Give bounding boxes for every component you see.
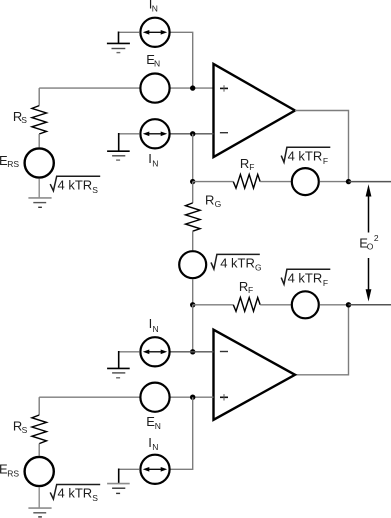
wire [260,304,291,306]
ground [107,469,140,494]
wire [170,351,213,353]
label IN (inverting, bottom) [149,316,159,334]
label RS (top) [13,109,27,125]
label EN (bottom) [146,414,161,431]
voltage source √4 kTRG [179,251,206,278]
svg-text:R: R [240,156,249,171]
value √4 kTRS (top) [50,176,100,195]
svg-text:4 kTR: 4 kTR [58,177,93,192]
ground [107,351,140,378]
node (inverting input junction) [190,131,195,136]
current source IN (inverting input, bottom) [140,337,169,366]
value √4 kTRS (bottom) [50,485,100,504]
resistor RS (top) [32,88,47,147]
label IN (inverting, top) [148,151,158,168]
voltage source ERS (top) [25,148,54,177]
svg-text:F: F [248,285,253,295]
wire [39,87,140,89]
node (noninverting input junction) [190,85,195,90]
node (noninverting input junction, bottom) [190,395,195,400]
svg-text:N: N [155,421,161,431]
label RF (bottom) [239,279,253,295]
node (top output) [346,179,351,184]
svg-text:2: 2 [374,233,379,243]
wire [39,396,140,398]
label IN (top) [149,0,158,14]
label ERS (top) [0,153,19,169]
node (bottom output) [346,302,351,307]
wire [193,181,234,183]
wire [320,304,349,306]
svg-text:S: S [92,493,98,503]
ground [28,487,51,517]
value √4 kTRF (top) [281,147,330,166]
resistor RS (bottom) [32,397,47,456]
node (bottom feedback node) [190,302,195,307]
svg-text:N: N [152,158,158,168]
node (inverting input junction, bottom) [190,349,195,354]
svg-text:4 kTR: 4 kTR [288,149,323,164]
ground [28,179,51,208]
wire [170,32,192,88]
svg-text:S: S [22,425,28,435]
voltage source ERS (bottom) [25,457,54,486]
wire [192,305,194,352]
svg-text:4 kTR: 4 kTR [220,256,255,271]
label EO^2 [359,233,379,252]
svg-text:O: O [367,242,374,252]
wire (op-amp U2 output) [295,305,349,375]
value √4 kTRG [211,254,262,272]
svg-text:N: N [154,58,160,68]
label EN (top) [146,52,160,68]
svg-text:F: F [323,156,328,166]
wire [349,181,391,183]
resistor RG [186,182,201,251]
label RS (bottom) [13,419,28,435]
ground [107,133,140,160]
label ERS (bottom) [0,462,19,479]
wire [170,133,213,135]
voltage source EN (bottom) [140,383,169,412]
svg-text:S: S [21,115,27,125]
resistor RF (top) [233,174,260,188]
node (top feedback node) [190,179,195,184]
wire [192,279,194,305]
svg-text:F: F [249,162,254,172]
current source IN (top, noninverting input) [140,18,169,47]
wire [170,397,192,469]
label RG [205,192,221,209]
wire [192,134,194,182]
svg-text:R: R [205,192,214,207]
op-amp U1 [214,64,296,157]
svg-text:S: S [92,185,98,195]
wire [349,304,391,306]
svg-text:R: R [239,279,248,294]
svg-text:F: F [323,278,328,288]
svg-text:4 kTR: 4 kTR [288,271,323,286]
label IN (bottom) [148,435,158,452]
svg-text:G: G [215,199,222,209]
svg-text:N: N [152,442,158,452]
wire [170,396,213,398]
svg-text:4 kTR: 4 kTR [58,486,93,501]
svg-text:RS: RS [7,468,19,478]
resistor RF (bottom) [233,298,260,312]
voltage source √4 kTRF (bottom) [292,291,319,318]
voltage source √4 kTRF (top) [292,168,319,195]
svg-text:N: N [152,4,158,14]
wire [193,304,234,306]
svg-text:G: G [255,262,262,272]
value √4 kTRF (bottom) [281,269,330,288]
EO^2 measurement arrow [366,184,372,301]
op-amp U2 [214,330,296,420]
ground [107,32,140,53]
wire (op-amp U1 output) [295,111,349,182]
label RF (top) [240,156,255,172]
wire [170,87,213,89]
wire [320,181,349,183]
svg-text:N: N [153,324,159,334]
svg-text:RS: RS [7,159,19,169]
wire [260,181,291,183]
current source IN (inverting input, top) [140,119,169,148]
voltage source EN (top) [140,74,169,103]
current source IN (bottom) [140,455,169,484]
